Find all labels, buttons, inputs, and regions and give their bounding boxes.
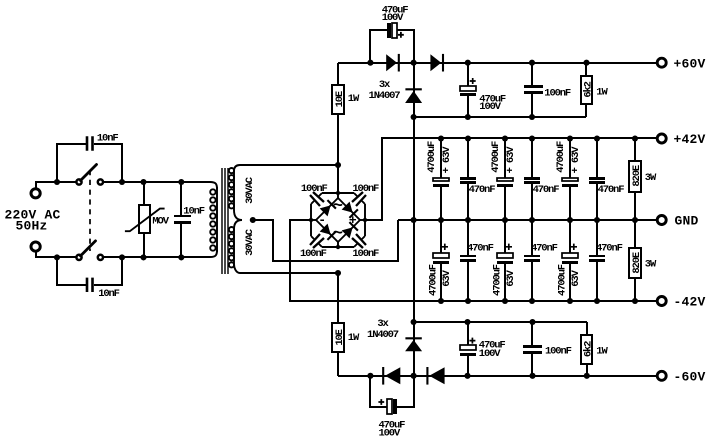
wire: GND rail <box>398 219 657 221</box>
svg-text:1N4007: 1N4007 <box>367 329 399 341</box>
wire: 220V AC neutral input stub <box>36 252 76 257</box>
node A: 10E to pump cap junction <box>367 60 373 66</box>
capacitor 470nF (-42V rail) col4 <box>531 220 533 255</box>
svg-text:470nF: 470nF <box>531 242 558 254</box>
svg-text:100V: 100V <box>379 427 401 439</box>
wire: top section return line to GND trunk <box>414 116 586 118</box>
wire: bridge - output down to -42V rail <box>290 220 657 301</box>
svg-text:470nF: 470nF <box>467 242 494 254</box>
svg-text:470nF: 470nF <box>469 184 496 196</box>
svg-text:10E: 10E <box>334 91 346 107</box>
capacitor 470nF (-42V rail) col6 <box>596 220 598 255</box>
capacitor 470uF 100V filter (bottom) <box>467 322 469 345</box>
terminal GND <box>657 216 666 225</box>
svg-text:63V: 63V <box>570 269 582 286</box>
terminal: AC input live <box>31 189 40 198</box>
capacitor 4700uF 63V (+42V rail) col3 <box>504 138 506 178</box>
varistor MOV across mains <box>143 182 145 205</box>
svg-text:470nF: 470nF <box>596 242 623 254</box>
resistor 10E 1W (bottom) <box>332 323 344 352</box>
svg-text:63V: 63V <box>505 269 517 286</box>
svg-text:+: + <box>349 213 357 228</box>
diode D3 1N4007 clamp to GND <box>413 63 415 117</box>
svg-text:4700uF: 4700uF <box>555 141 567 173</box>
wire: neutral from switch to transformer primary bottom <box>104 250 217 257</box>
capacitor 470nF (+42V rail) col6 <box>596 138 598 177</box>
wire: live from switch to transformer primary top <box>104 182 217 189</box>
wire: 10E to bridge top vertex <box>337 114 339 192</box>
diode D4 1N4007 <box>385 367 400 384</box>
wire: bridge + output up to +42V rail <box>365 138 657 220</box>
svg-text:100nF: 100nF <box>300 248 327 260</box>
transformer T1 primary winding <box>216 187 218 252</box>
wire: bottom section return line to GND trunk <box>414 321 587 323</box>
svg-text:100nF: 100nF <box>352 248 379 260</box>
svg-text:+ 63V: + 63V <box>441 146 453 174</box>
svg-text:4700uF: 4700uF <box>557 264 569 296</box>
capacitor 100nF (top) <box>531 63 533 85</box>
node B2: pump junction (bottom) <box>411 373 417 379</box>
diode D6 1N4007 clamp to GND <box>413 322 415 376</box>
transformer T1 secondary winding 30VAC upper <box>234 165 242 220</box>
svg-text:10E: 10E <box>334 329 346 345</box>
wire: GND trunk (crosses +42V and -42V rails) <box>413 117 415 322</box>
svg-text:-42V: -42V <box>674 295 706 310</box>
resistor 820E 3W bleeder (-42V) <box>634 220 636 248</box>
node: bridge bottom vertex <box>336 245 340 249</box>
node: bridge left vertex <box>309 218 313 222</box>
svg-text:100V: 100V <box>479 101 501 113</box>
svg-text:~: ~ <box>333 197 343 216</box>
svg-text:820E: 820E <box>631 165 643 186</box>
resistor 10E 1W (top) <box>332 85 344 114</box>
resistor 820E 3W bleeder (+42V) <box>634 138 636 161</box>
node: secondary top / trunk junction <box>335 162 341 168</box>
svg-text:820E: 820E <box>631 252 643 273</box>
svg-text:1N4007: 1N4007 <box>369 90 401 102</box>
node: bridge top vertex <box>336 191 340 195</box>
svg-text:~: ~ <box>333 225 343 244</box>
wire: left trunk top (AC node to +60V pump) <box>337 63 339 85</box>
capacitor 4700uF 63V (-42V rail) col1 <box>440 220 442 253</box>
bridge inner diamond with 4 diodes 1N5404 <box>337 193 339 198</box>
svg-text:6k2: 6k2 <box>582 81 594 97</box>
wire: secondary bottom to trunk <box>240 272 338 274</box>
node: bridge right vertex <box>363 218 367 222</box>
svg-text:100V: 100V <box>382 12 404 24</box>
svg-text:30VAC: 30VAC <box>244 176 256 204</box>
svg-text:100nF: 100nF <box>301 183 328 195</box>
wire: +60V rail <box>338 62 657 64</box>
svg-text:-60V: -60V <box>674 370 706 385</box>
capacitor 10nF across primary <box>180 182 182 215</box>
svg-text:4700uF: 4700uF <box>428 264 440 296</box>
svg-text:+60V: +60V <box>674 56 706 71</box>
capacitor 470uF 100V filter (top) <box>467 63 469 86</box>
capacitor 470nF (+42V rail) col2 <box>467 138 469 177</box>
diode D1 1N4007 <box>386 54 397 71</box>
svg-text:470nF: 470nF <box>533 184 560 196</box>
svg-text:6k2: 6k2 <box>583 341 595 357</box>
node B: pump junction <box>411 60 417 66</box>
transformer T1 secondary winding 30VAC lower <box>234 220 242 273</box>
svg-text:100V: 100V <box>479 348 501 360</box>
wire: secondary top to trunk <box>240 164 338 166</box>
svg-text:63V: 63V <box>441 269 453 286</box>
svg-text:100nF: 100nF <box>545 345 572 357</box>
svg-text:+ 63V: + 63V <box>505 146 517 174</box>
switch gang dashed link <box>89 170 91 251</box>
wire: 10E to -60V rail <box>337 352 339 376</box>
capacitor 4700uF 63V (+42V rail) col5 <box>569 138 571 178</box>
capacitor 470uF 100V pump (top) <box>370 30 387 63</box>
capacitor 4700uF 63V (-42V rail) col5 <box>569 220 571 253</box>
svg-text:GND: GND <box>675 214 699 229</box>
switch S1b (neutral) <box>76 255 81 260</box>
terminal -42V <box>657 297 666 306</box>
svg-text:100nF: 100nF <box>352 183 379 195</box>
svg-text:50Hz: 50Hz <box>16 219 48 234</box>
svg-text:MOV: MOV <box>152 215 169 227</box>
capacitor 470nF (+42V rail) col4 <box>531 138 533 177</box>
svg-text:4700uF: 4700uF <box>492 264 504 296</box>
svg-text:10nF: 10nF <box>183 206 204 218</box>
capacitor 4700uF 63V (+42V rail) col1 <box>440 138 442 178</box>
svg-text:30VAC: 30VAC <box>244 228 256 256</box>
diode D5 1N4007 <box>429 367 444 384</box>
capacitor 470nF (-42V rail) col2 <box>467 220 469 255</box>
wire: left trunk bottom (crosses -42V rail) <box>337 273 339 323</box>
capacitor 10nF bypass across S1b <box>57 257 86 285</box>
wire: 220V AC live input stub <box>36 182 76 188</box>
svg-text:-: - <box>318 213 326 228</box>
resistor 6k2 1W bleeder (top) <box>585 63 587 76</box>
terminal -60V <box>657 371 666 380</box>
diode D2 1N4007 <box>430 54 441 71</box>
transformer core <box>221 168 223 274</box>
svg-text:100nF: 100nF <box>544 88 571 100</box>
capacitor 4700uF 63V (-42V rail) col3 <box>504 220 506 253</box>
capacitor 470uF 100V pump (bottom) <box>370 376 387 407</box>
wire: -60V rail <box>338 375 657 377</box>
node: secondary bottom / trunk junction <box>335 270 341 276</box>
svg-text:10nF: 10nF <box>97 133 118 145</box>
wire: center tap to GND rail (routed below bridge) <box>253 220 398 261</box>
terminal: AC input neutral <box>31 242 40 251</box>
svg-text:+42V: +42V <box>674 132 706 147</box>
svg-text:10nF: 10nF <box>98 288 119 300</box>
node: center tap <box>250 217 256 223</box>
terminal +42V <box>657 134 666 143</box>
svg-text:4700uF: 4700uF <box>490 141 502 173</box>
capacitor 100nF (bottom) <box>531 322 533 345</box>
svg-text:+ 63V: + 63V <box>570 146 582 174</box>
svg-text:4700uF: 4700uF <box>426 141 438 173</box>
bridge rectifier with 100nF snubbers <box>322 192 354 194</box>
resistor 6k2 1W bleeder (bottom) <box>586 322 588 335</box>
node A2: pump cap junction (bottom) <box>367 373 373 379</box>
capacitor 10nF bypass across S1a <box>57 144 86 182</box>
svg-text:470nF: 470nF <box>598 184 625 196</box>
terminal +60V <box>657 58 666 67</box>
switch S1a (live) <box>76 179 81 184</box>
